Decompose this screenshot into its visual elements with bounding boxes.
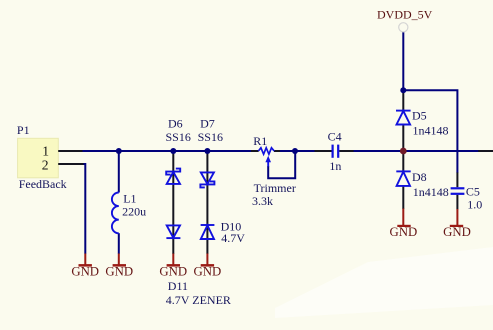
svg-text:GND: GND bbox=[194, 265, 222, 279]
svg-text:1n: 1n bbox=[329, 159, 341, 173]
svg-text:2: 2 bbox=[42, 158, 49, 173]
svg-text:GND: GND bbox=[390, 225, 418, 239]
svg-text:D7: D7 bbox=[200, 117, 215, 131]
svg-text:L1: L1 bbox=[123, 191, 136, 205]
svg-text:DVDD_5V: DVDD_5V bbox=[377, 7, 433, 21]
svg-text:D8: D8 bbox=[412, 170, 427, 184]
svg-text:GND: GND bbox=[443, 225, 471, 239]
svg-text:4.7V: 4.7V bbox=[221, 231, 245, 245]
svg-text:220u: 220u bbox=[122, 204, 146, 218]
svg-text:1: 1 bbox=[42, 144, 49, 159]
svg-text:D11: D11 bbox=[168, 279, 188, 293]
svg-text:C5: C5 bbox=[466, 185, 480, 199]
svg-text:1.0: 1.0 bbox=[467, 198, 482, 212]
svg-text:D6: D6 bbox=[168, 117, 183, 131]
svg-text:3.3k: 3.3k bbox=[252, 194, 273, 208]
svg-text:SS16: SS16 bbox=[166, 130, 191, 144]
svg-text:C4: C4 bbox=[328, 130, 342, 144]
svg-text:1n4148: 1n4148 bbox=[413, 185, 449, 199]
svg-text:P1: P1 bbox=[17, 123, 30, 137]
svg-text:Trimmer: Trimmer bbox=[254, 181, 296, 195]
svg-text:GND: GND bbox=[159, 265, 187, 279]
svg-text:SS16: SS16 bbox=[198, 130, 223, 144]
svg-text:4.7V ZENER: 4.7V ZENER bbox=[166, 293, 231, 307]
svg-text:D5: D5 bbox=[412, 108, 427, 122]
svg-text:FeedBack: FeedBack bbox=[19, 177, 67, 191]
svg-text:R1: R1 bbox=[253, 134, 267, 148]
svg-text:GND: GND bbox=[71, 265, 99, 279]
svg-text:1n4148: 1n4148 bbox=[413, 123, 449, 137]
svg-text:GND: GND bbox=[105, 265, 133, 279]
